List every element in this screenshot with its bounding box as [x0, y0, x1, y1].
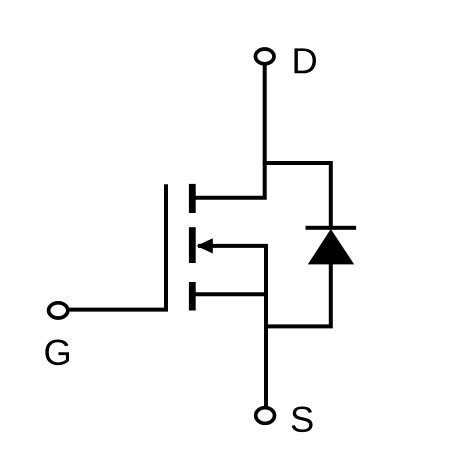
wire: drain node branch right and down to diode cathode [263, 163, 331, 227]
wire: source contact horizontal [196, 292, 267, 296]
wire: source vertical down to terminal S [264, 246, 268, 409]
body arrow head [196, 238, 212, 253]
MOSFET channel source bar [189, 282, 196, 311]
MOSFET channel body bar [189, 227, 196, 263]
wire: terminal D down to drain node, corner left to channel drain bar [196, 64, 265, 198]
label G [45, 339, 69, 365]
diode D1 anode triangle [308, 229, 354, 264]
wire: body contact horizontal [198, 244, 268, 248]
label D [294, 48, 316, 73]
label S [292, 406, 313, 432]
gate electrode vertical line and wire to terminal G [69, 184, 167, 309]
terminal G [49, 303, 68, 318]
MOSFET channel drain bar [189, 184, 196, 213]
terminal S [256, 408, 275, 424]
wire: diode anode down, corner left to source vertical [266, 263, 331, 326]
terminal D [255, 49, 274, 64]
diode D1 cathode bar [306, 226, 357, 230]
